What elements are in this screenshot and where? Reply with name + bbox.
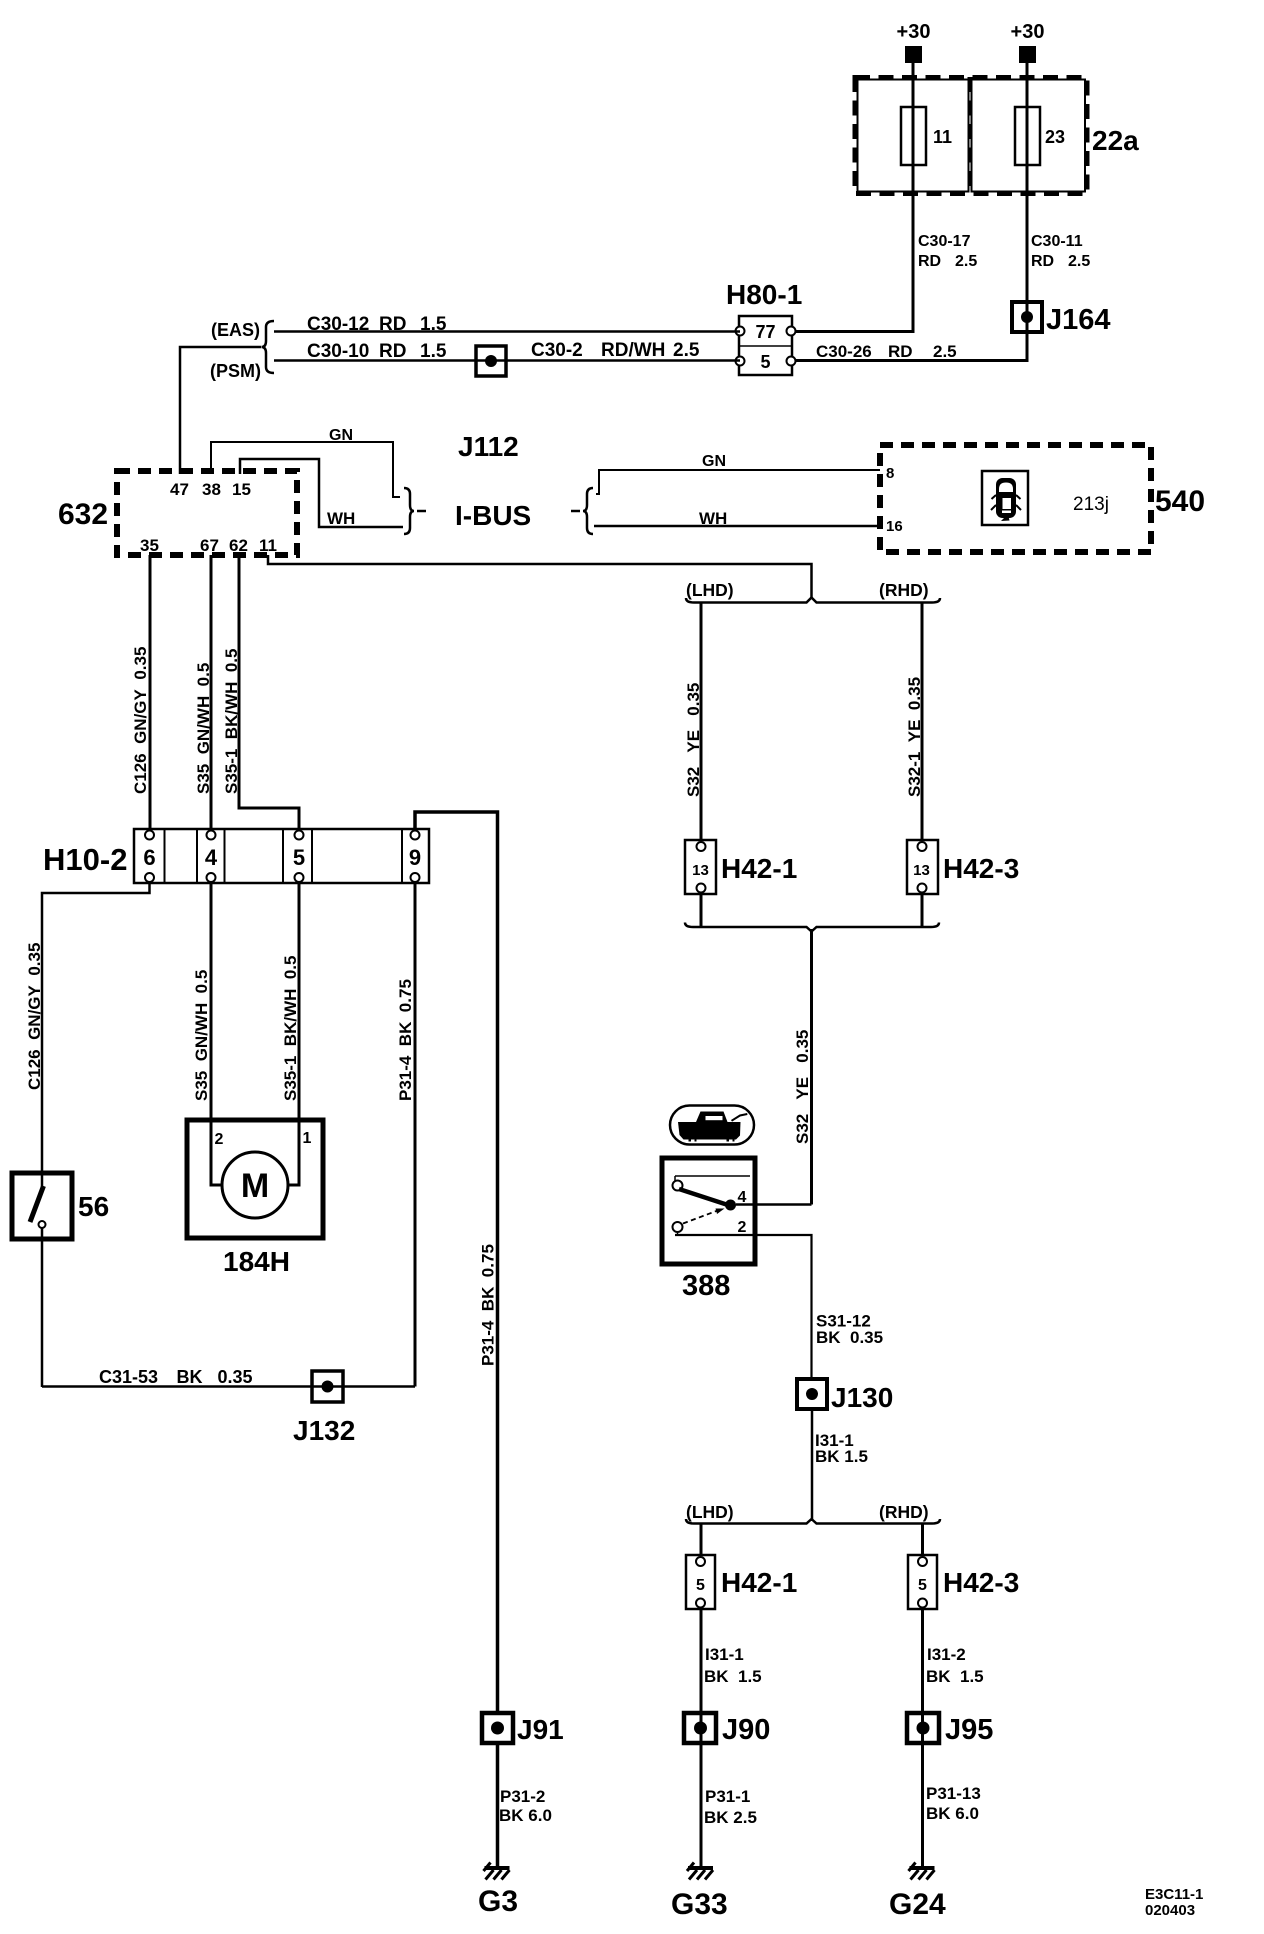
junction J90: [684, 1713, 770, 1746]
wire from brace to 632 pin 47: [180, 347, 261, 474]
svg-text:6: 6: [143, 845, 155, 870]
svg-text:H42-3: H42-3: [943, 853, 1019, 884]
connector H42-3 pin 13: [907, 840, 1019, 894]
svg-text:540: 540: [1155, 485, 1205, 518]
svg-text:62: 62: [229, 536, 248, 555]
svg-text:56: 56: [78, 1191, 109, 1222]
svg-text:8: 8: [886, 465, 894, 482]
svg-text:184H: 184H: [223, 1246, 290, 1277]
svg-text:67: 67: [200, 536, 219, 555]
svg-text:I-BUS: I-BUS: [455, 500, 531, 531]
wire switch 56 to C31-53: [41, 1228, 44, 1387]
hood open icon: [670, 1106, 754, 1145]
svg-text:P31-4 BK 0.75: P31-4 BK 0.75: [479, 1244, 498, 1366]
wire C126 GN/GY 0.35 (632 pin 35 to H10-2 pin 6): [131, 555, 150, 830]
svg-text:213j: 213j: [1073, 494, 1109, 515]
svg-text:(RHD): (RHD): [879, 580, 929, 600]
wire S32-1 YE 0.35 (RHD branch): [905, 603, 924, 840]
wire C30-26 RD 2.5 : J164 to H80-1 pin 5: [791, 317, 1027, 361]
svg-text:77: 77: [755, 322, 775, 342]
svg-text:47: 47: [170, 480, 189, 499]
power supply +30 (left): [897, 21, 931, 63]
connector H10-2: [43, 829, 429, 883]
svg-text:S32-1 YE 0.35: S32-1 YE 0.35: [905, 677, 924, 797]
svg-text:G3: G3: [478, 1885, 518, 1918]
wire C30-11 RD 2.5 : +30 through fuse 23 to junction J164: [1026, 60, 1029, 317]
svg-text:P31-13: P31-13: [926, 1784, 981, 1803]
svg-text:C30-2RD/WH2.5: C30-2RD/WH2.5: [531, 340, 700, 361]
svg-text:BK 0.35: BK 0.35: [816, 1328, 883, 1347]
svg-text:BK 1.5: BK 1.5: [815, 1447, 868, 1466]
wire I31-1 BK 1.5 (J130 to lower split): [812, 1409, 868, 1521]
wire C30-12 RD 1.5 (EAS to H80-1 pin 77): [274, 330, 740, 333]
wire C30-17 RD 2.5 : +30 through fuse 11 to H80-1 pin 77: [791, 60, 913, 332]
svg-text:4: 4: [205, 845, 218, 870]
ground G3: [478, 1863, 518, 1919]
svg-text:5: 5: [696, 1577, 705, 1594]
split bracket LHD/RHD (lower): [686, 1519, 940, 1524]
junction J132: [293, 1371, 355, 1446]
svg-text:S35-1 BK/WH 0.5: S35-1 BK/WH 0.5: [222, 649, 241, 795]
I-BUS bracket left: [404, 488, 426, 534]
wire S32 YE 0.35 (LHD branch): [684, 603, 703, 840]
svg-text:+30: +30: [1011, 21, 1045, 43]
svg-text:13: 13: [692, 862, 709, 879]
power supply +30 (right): [1011, 21, 1045, 63]
wire S31-12 BK 0.35 (388 pin 2 to J130): [675, 1235, 883, 1380]
svg-text:S35 GN/WH 0.5: S35 GN/WH 0.5: [192, 970, 211, 1101]
svg-text:C126 GN/GY 0.35: C126 GN/GY 0.35: [131, 647, 150, 794]
svg-text:S35-1 BK/WH 0.5: S35-1 BK/WH 0.5: [281, 956, 300, 1102]
svg-text:020403: 020403: [1145, 1902, 1195, 1919]
svg-text:35: 35: [140, 536, 159, 555]
svg-text:388: 388: [682, 1270, 730, 1302]
wire S35-1 BK/WH 0.5 (632 pin 62 to H10-2 pin 5): [222, 555, 299, 830]
switch 388 (hood contact): [662, 1158, 755, 1302]
svg-text:RD2.5: RD2.5: [1031, 253, 1090, 270]
svg-text:C30-26RD2.5: C30-26RD2.5: [816, 342, 957, 361]
wire WH (I-BUS to 540 pin 16): [594, 509, 880, 528]
wire RHD split to H42-3 (5): [921, 1524, 924, 1555]
svg-text:5: 5: [760, 352, 770, 372]
svg-text:S32 YE 0.35: S32 YE 0.35: [684, 683, 703, 797]
wire S32 from 632 pin 11 to LHD/RHD split: [268, 555, 812, 598]
wire GN (I-BUS to 540 pin 8): [596, 453, 880, 494]
svg-text:WH: WH: [699, 509, 727, 528]
svg-text:H42-1: H42-1: [721, 1567, 797, 1598]
svg-text:BK 6.0: BK 6.0: [926, 1804, 979, 1823]
svg-text:C30-17: C30-17: [918, 233, 971, 250]
svg-text:C126 GN/GY 0.35: C126 GN/GY 0.35: [25, 943, 44, 1090]
drawing number E3C11-1 / 020403: [1145, 1886, 1203, 1919]
junction J164: [1012, 302, 1111, 336]
svg-text:2: 2: [738, 1219, 747, 1236]
switch 56: [12, 1173, 109, 1239]
svg-text:11: 11: [933, 127, 952, 147]
svg-text:GN: GN: [702, 453, 726, 470]
ground G33: [671, 1863, 728, 1922]
svg-text:S35 GN/WH 0.5: S35 GN/WH 0.5: [194, 663, 213, 794]
label P31-1 BK 2.5: [704, 1787, 757, 1827]
wire I31-2 BK 1.5 (H42-3 to J95): [923, 1609, 984, 1866]
svg-text:G24: G24: [889, 1888, 946, 1921]
wire below H42-1 (13): [700, 894, 703, 926]
wire S35 GN/WH 0.5 (H10-2 pin 4 to motor pin 2): [192, 883, 221, 1185]
merge bracket LHD/RHD: [685, 923, 939, 932]
svg-text:9: 9: [409, 845, 421, 870]
svg-text:H80-1: H80-1: [726, 279, 802, 310]
wire P31-2 BK 6.0 (J91 to ground G3): [498, 1743, 552, 1866]
junction on PSM wire: [476, 346, 506, 376]
svg-text:22a: 22a: [1092, 125, 1139, 156]
svg-text:E3C11-1: E3C11-1: [1145, 1886, 1203, 1903]
svg-text:(LHD): (LHD): [686, 1502, 734, 1522]
connector H42-3 pin 5: [908, 1555, 1019, 1609]
ground G24: [889, 1863, 946, 1922]
I-BUS bracket right: [571, 488, 593, 534]
junction J130: [797, 1379, 893, 1413]
connector H80-1: [726, 279, 802, 375]
svg-text:M: M: [241, 1167, 269, 1205]
label P31-13 BK 6.0: [926, 1784, 981, 1823]
wire below H42-3 (13): [921, 894, 924, 926]
wire C31-53 BK 0.35: [42, 1367, 415, 1387]
svg-text:RD2.5: RD2.5: [918, 253, 977, 270]
svg-text:J91: J91: [517, 1714, 564, 1745]
component 213j (car icon): [982, 471, 1109, 525]
svg-text:(EAS): (EAS): [211, 320, 260, 340]
label C30-17 RD 2.5: [918, 233, 977, 270]
svg-text:J90: J90: [722, 1714, 770, 1746]
svg-text:I31-2: I31-2: [927, 1645, 966, 1664]
svg-text:S32 YE 0.35: S32 YE 0.35: [793, 1030, 812, 1144]
svg-text:632: 632: [58, 498, 108, 531]
svg-text:BK 2.5: BK 2.5: [704, 1808, 757, 1827]
wire LHD split to H42-1 (5): [700, 1524, 703, 1555]
svg-text:C31-53BK0.35: C31-53BK0.35: [99, 1367, 253, 1387]
svg-text:(LHD): (LHD): [686, 580, 734, 600]
svg-text:G33: G33: [671, 1888, 728, 1921]
wire GN (632 pin 38 to I-BUS): [211, 427, 400, 497]
svg-text:38: 38: [202, 480, 221, 499]
svg-text:1: 1: [303, 1130, 312, 1147]
label C30-11 RD 2.5: [1031, 233, 1090, 270]
svg-text:(RHD): (RHD): [879, 1502, 929, 1522]
svg-text:H42-1: H42-1: [721, 853, 797, 884]
junction J91: [482, 1713, 564, 1745]
fuse 11: [901, 107, 952, 165]
wire S32 YE 0.35 (merged, to switch 388): [793, 929, 812, 1205]
connector H42-1 pin 5: [686, 1555, 797, 1609]
svg-text:H10-2: H10-2: [43, 842, 127, 877]
wire I31-1 BK 1.5 (H42-1 to J90): [701, 1609, 762, 1866]
motor 184H: [187, 1120, 323, 1277]
wire S35 GN/WH 0.5 (632 pin 67 to H10-2 pin 4): [194, 555, 213, 830]
svg-text:5: 5: [293, 845, 305, 870]
svg-text:P31-4 BK 0.75: P31-4 BK 0.75: [396, 979, 415, 1101]
fuse box 22a: [855, 77, 1139, 194]
control module 632 (dashed box): [58, 471, 297, 555]
svg-text:(PSM): (PSM): [210, 361, 261, 381]
svg-text:P31-2: P31-2: [500, 1787, 545, 1806]
svg-text:BK 1.5: BK 1.5: [704, 1667, 762, 1686]
svg-text:BK 6.0: BK 6.0: [499, 1806, 552, 1825]
svg-text:J164: J164: [1046, 304, 1111, 336]
svg-text:16: 16: [886, 518, 903, 535]
svg-text:J130: J130: [831, 1382, 893, 1413]
svg-text:23: 23: [1045, 127, 1065, 147]
svg-text:C30-11: C30-11: [1031, 233, 1083, 250]
svg-text:P31-1: P31-1: [705, 1787, 750, 1806]
wire P31-4 BK 0.75 (H10-2 pin 9 top to J91): [415, 812, 498, 1713]
brace EAS/PSM: [262, 321, 275, 373]
junction J95: [907, 1713, 993, 1746]
svg-text:+30: +30: [897, 21, 931, 43]
wire C30-10 / C30-2 (PSM to H80-1 pin 5): [274, 359, 740, 362]
svg-text:5: 5: [918, 1577, 927, 1594]
svg-text:H42-3: H42-3: [943, 1567, 1019, 1598]
svg-text:J112: J112: [458, 431, 519, 462]
svg-text:C30-10RD1.5: C30-10RD1.5: [307, 341, 447, 362]
wire WH (632 pin 15 to I-BUS): [240, 459, 403, 528]
svg-text:WH: WH: [327, 509, 355, 528]
wire C126 GN/GY 0.35 (H10-2 pin 6 to switch 56): [25, 883, 150, 1173]
svg-text:13: 13: [913, 862, 930, 879]
svg-text:J132: J132: [293, 1415, 355, 1446]
fuse 23: [1015, 107, 1065, 165]
wire S35-1 BK/WH 0.5 (H10-2 pin 5 to motor pin 1): [281, 883, 300, 1185]
svg-text:11: 11: [259, 536, 277, 555]
svg-text:GN: GN: [329, 427, 353, 444]
connector H42-1 pin 13: [685, 840, 797, 894]
split bracket LHD/RHD (upper): [686, 598, 940, 603]
wire from 388 pin 4: [736, 1203, 812, 1206]
svg-text:BK 1.5: BK 1.5: [926, 1667, 984, 1686]
svg-text:2: 2: [215, 1131, 224, 1148]
svg-text:15: 15: [232, 480, 251, 499]
svg-text:I31-1: I31-1: [705, 1645, 744, 1664]
wire P31-4 BK 0.75 (H10-2 pin 9 bottom to J132 wire): [396, 883, 415, 1387]
svg-text:J95: J95: [945, 1714, 993, 1746]
module 540 (dashed box): [880, 445, 1205, 552]
